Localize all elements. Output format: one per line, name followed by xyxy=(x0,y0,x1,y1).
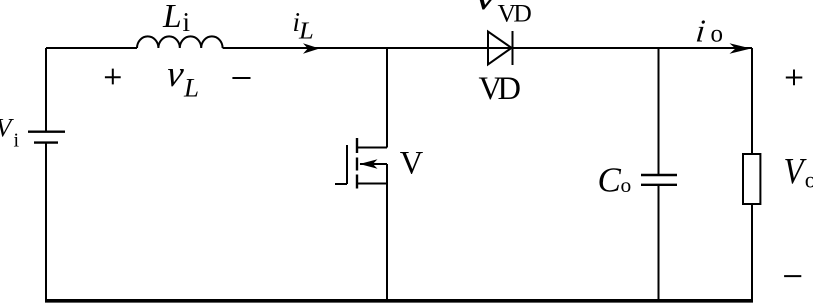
transistor V source horizontal xyxy=(357,183,387,185)
svg-text:L: L xyxy=(183,73,199,102)
wire load branch lower xyxy=(751,204,753,302)
wire MOSFET drain vertical xyxy=(386,48,388,148)
arrow io xyxy=(730,43,752,54)
svg-text:V: V xyxy=(400,146,424,182)
svg-text:VD: VD xyxy=(498,0,532,27)
arrow iL xyxy=(303,43,320,54)
transistor V drain horizontal xyxy=(357,147,387,149)
wire MOSFET source vertical to bottom xyxy=(386,164,388,302)
svg-text:V: V xyxy=(0,114,15,143)
transistor V body line xyxy=(360,163,387,165)
wire capacitor branch lower xyxy=(658,186,660,302)
voltage source Vi plate short xyxy=(34,141,58,143)
plus sign Vo xyxy=(786,70,803,86)
svg-text:v: v xyxy=(474,0,497,18)
capacitor Co plate bottom xyxy=(641,184,677,186)
minus sign vL xyxy=(232,77,250,79)
svg-text:L: L xyxy=(298,18,314,45)
transistor V body arrowhead xyxy=(360,159,378,168)
svg-text:i: i xyxy=(183,7,191,37)
svg-text:i: i xyxy=(694,13,707,49)
wire capacitor branch upper xyxy=(658,48,660,174)
transistor V gate stub xyxy=(335,183,347,185)
transistor V gate line xyxy=(346,145,348,184)
wire top-left (Vi to inductor) xyxy=(46,47,137,49)
svg-text:o: o xyxy=(711,21,724,48)
transistor V channel dash middle xyxy=(356,158,358,171)
capacitor Co plate top xyxy=(641,174,677,176)
wire left vertical lower (Vi negative lead) xyxy=(45,143,47,302)
svg-text:i: i xyxy=(14,130,20,152)
inductor L1 humps xyxy=(137,36,223,48)
diode VD cathode bar xyxy=(512,31,514,65)
svg-text:L: L xyxy=(162,0,182,35)
transistor V channel dash top xyxy=(356,138,358,153)
svg-text:V: V xyxy=(784,152,808,193)
diode VD triangle xyxy=(488,32,512,65)
svg-text:o: o xyxy=(805,168,813,193)
wire load branch upper xyxy=(751,48,753,154)
transistor V channel dash bottom xyxy=(356,175,358,189)
voltage source Vi plate long xyxy=(28,130,65,132)
plus sign vL xyxy=(105,69,121,85)
resistor load box xyxy=(743,154,760,204)
svg-text:C: C xyxy=(598,160,622,199)
wire left vertical upper (Vi positive lead) xyxy=(45,48,47,131)
minus sign Vo xyxy=(784,275,801,277)
wire bottom rail xyxy=(45,299,753,303)
svg-text:VD: VD xyxy=(479,71,521,107)
wire top (inductor to load corner) xyxy=(223,47,752,49)
svg-text:o: o xyxy=(621,173,632,197)
